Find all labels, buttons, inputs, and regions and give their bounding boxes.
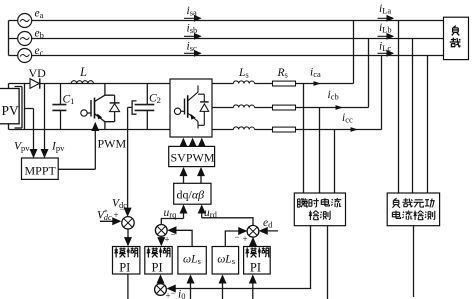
- svg-text:Rs: Rs: [277, 67, 288, 80]
- svg-text:−: −: [235, 232, 240, 242]
- svg-text:PI: PI: [119, 260, 130, 274]
- svg-text:Ipv: Ipv: [51, 141, 65, 154]
- svg-text:isc: isc: [187, 40, 198, 53]
- svg-text:urq: urq: [164, 207, 178, 220]
- svg-text:i0: i0: [178, 289, 185, 299]
- svg-text:+: +: [114, 210, 119, 220]
- svg-text:MPPT: MPPT: [25, 164, 57, 178]
- svg-text:V*dc: V*dc: [97, 207, 112, 222]
- svg-text:icc: icc: [342, 112, 353, 125]
- svg-text:L: L: [79, 65, 87, 79]
- svg-text:PV: PV: [2, 103, 20, 118]
- svg-text:isa: isa: [187, 5, 198, 17]
- svg-text:ωLs: ωLs: [183, 253, 201, 266]
- svg-text:−: −: [171, 288, 176, 298]
- svg-text:−: −: [120, 204, 125, 214]
- svg-text:isb: isb: [187, 23, 198, 36]
- svg-text:iLb: iLb: [379, 22, 392, 35]
- svg-text:eb: eb: [35, 27, 44, 40]
- svg-text:ea: ea: [35, 7, 44, 20]
- svg-text:Ls: Ls: [238, 67, 249, 80]
- svg-text:urd: urd: [204, 207, 218, 220]
- svg-text:iLc: iLc: [379, 41, 391, 54]
- svg-text:ec: ec: [35, 45, 44, 58]
- svg-text:+: +: [165, 235, 170, 245]
- svg-text:iLa: iLa: [379, 3, 391, 16]
- svg-text:icb: icb: [328, 89, 339, 102]
- svg-text:C2: C2: [149, 93, 161, 106]
- svg-text:−: −: [171, 230, 176, 240]
- svg-text:PI: PI: [250, 260, 261, 274]
- svg-text:dq/αβ: dq/αβ: [177, 188, 205, 202]
- svg-text:+: +: [243, 234, 248, 244]
- svg-text:C1: C1: [63, 94, 75, 107]
- svg-text:PI: PI: [152, 260, 163, 274]
- svg-text:Vpv: Vpv: [14, 141, 30, 154]
- svg-text:ica: ica: [310, 67, 321, 80]
- svg-text:VD: VD: [29, 66, 47, 80]
- svg-text:PWM: PWM: [98, 137, 127, 151]
- svg-text:SVPWM: SVPWM: [171, 151, 215, 165]
- svg-text:ed: ed: [263, 217, 273, 230]
- svg-text:ωLs: ωLs: [217, 253, 235, 266]
